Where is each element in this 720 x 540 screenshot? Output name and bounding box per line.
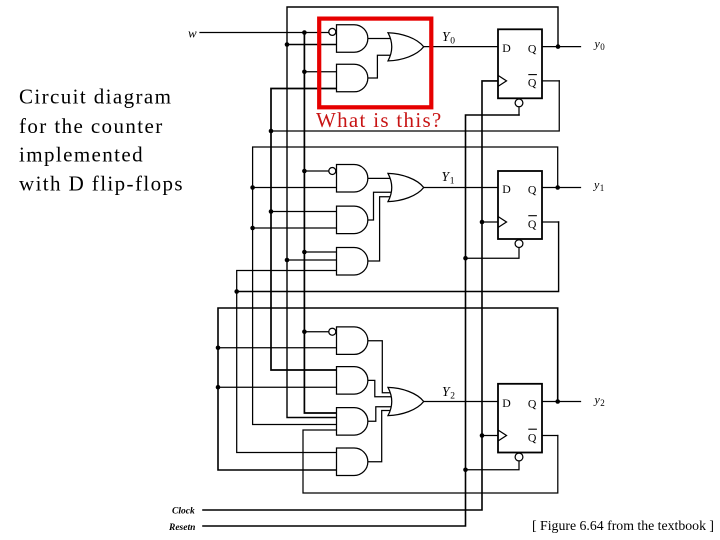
svg-text:2: 2 bbox=[600, 398, 605, 408]
svg-text:Q: Q bbox=[528, 182, 537, 196]
svg-text:Q: Q bbox=[528, 76, 537, 90]
svg-text:Q: Q bbox=[528, 396, 537, 410]
svg-text:Q: Q bbox=[528, 217, 537, 231]
svg-text:D: D bbox=[502, 396, 511, 410]
svg-text:implemented: implemented bbox=[19, 142, 144, 166]
svg-text:with D flip-flops: with D flip-flops bbox=[19, 172, 184, 196]
svg-text:1: 1 bbox=[450, 177, 455, 187]
svg-text:w: w bbox=[188, 25, 197, 40]
svg-text:0: 0 bbox=[450, 37, 455, 47]
svg-text:Circuit diagram: Circuit diagram bbox=[19, 85, 172, 109]
svg-text:for the counter: for the counter bbox=[19, 114, 164, 138]
svg-text:Clock: Clock bbox=[172, 507, 195, 517]
svg-text:Resetn: Resetn bbox=[168, 523, 195, 533]
svg-text:D: D bbox=[502, 41, 511, 55]
svg-text:[ Figure 6.64 from the textboo: [ Figure 6.64 from the textbook ] bbox=[532, 518, 714, 533]
svg-text:Q: Q bbox=[528, 41, 537, 55]
svg-text:0: 0 bbox=[600, 42, 605, 52]
svg-text:Q: Q bbox=[528, 430, 537, 444]
svg-text:2: 2 bbox=[450, 391, 455, 401]
svg-text:1: 1 bbox=[600, 183, 605, 193]
svg-text:D: D bbox=[502, 182, 511, 196]
svg-text:What is this?: What is this? bbox=[316, 108, 443, 132]
